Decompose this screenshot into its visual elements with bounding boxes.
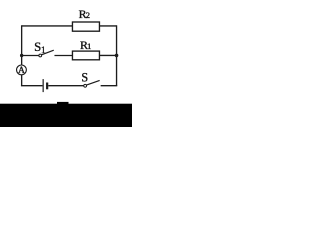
- wire bottom: battery to switch S: [48, 85, 84, 87]
- resistor R1: [72, 51, 99, 60]
- wire middle: S1 to R1 left: [54, 55, 72, 57]
- svg-text:2: 2: [86, 10, 90, 20]
- svg-text:1: 1: [87, 41, 91, 51]
- svg-text:S: S: [81, 71, 88, 85]
- battery cell: long plate: [42, 79, 44, 92]
- switch S blade: [86, 80, 99, 85]
- node left junction: [20, 54, 23, 57]
- wire top: R2 right to node TR: [99, 25, 116, 27]
- node right junction: [115, 54, 119, 58]
- wire left vertical upper: TL down to junction and ammeter: [21, 25, 23, 65]
- switch S contact: [84, 84, 87, 87]
- resistor R2: [72, 22, 99, 31]
- wire bottom: BL corner to battery: [21, 85, 43, 87]
- censored black bar bump: [57, 102, 69, 106]
- switch S1 blade: [42, 50, 54, 55]
- battery cell: short plate: [46, 83, 48, 90]
- censored black bar: [0, 104, 132, 127]
- wire bottom: switch S to BR corner: [101, 85, 118, 87]
- ammeter A: [17, 65, 27, 75]
- svg-text:A: A: [18, 65, 25, 76]
- switch S1 contact: [39, 54, 42, 57]
- wire right vertical: TR down to BR: [116, 25, 118, 85]
- wire middle: R1 right to right junction: [99, 54, 116, 56]
- wire middle: junction to S1: [22, 55, 39, 57]
- wire left vertical lower: ammeter to BL corner: [21, 75, 23, 86]
- wire top: node TL to R2 left: [22, 25, 73, 27]
